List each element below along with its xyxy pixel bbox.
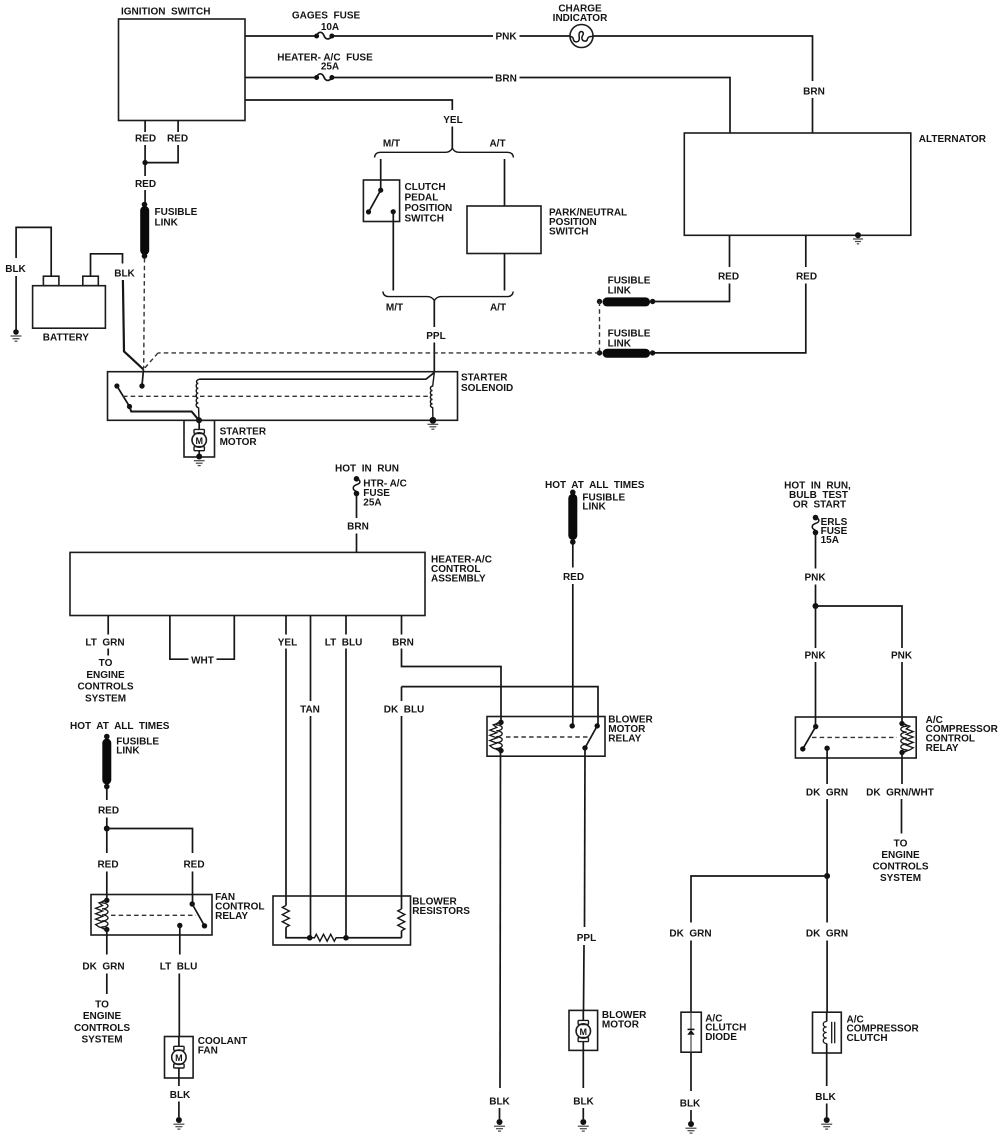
wire RED to upper fusible link: [653, 284, 730, 302]
svg-text:25A: 25A: [363, 498, 381, 509]
svg-text:RED: RED: [167, 134, 188, 145]
ground inside alternator: [853, 232, 863, 244]
svg-text:DK GRN/WHT: DK GRN/WHT: [866, 788, 934, 799]
wire BLK below compressor clutch: [826, 1053, 828, 1086]
svg-text:IGNITION SWITCH: IGNITION SWITCH: [121, 7, 210, 18]
wire BLK stub: [690, 1110, 692, 1121]
svg-text:SWITCH: SWITCH: [405, 214, 444, 225]
wire YEL pin: [285, 616, 287, 635]
blower resistors: [273, 896, 470, 945]
wire A/T down to park/neutral switch: [504, 159, 506, 206]
svg-text:RED: RED: [183, 860, 204, 871]
svg-text:A/T: A/T: [490, 303, 506, 314]
brace M/T A/T upper: [375, 139, 514, 158]
ground (battery negative): [11, 329, 22, 341]
wire RED from fusible link: [106, 789, 108, 801]
svg-text:TO: TO: [894, 839, 908, 850]
alternator: [684, 133, 986, 235]
wire LT BLU into bus: [345, 896, 347, 938]
blower motor: [569, 1010, 647, 1051]
fuse ERLS FUSE 15A: [812, 515, 847, 546]
ground (starter motor): [194, 454, 205, 466]
svg-text:CONTROLS: CONTROLS: [77, 682, 133, 693]
wire DK GRN from relay switch: [826, 748, 828, 784]
wire RED ignition left pin: [144, 121, 146, 133]
wire PNK branch right: [816, 606, 903, 648]
wire DK GRN from relay coil: [106, 930, 108, 955]
svg-text:OR START: OR START: [793, 500, 846, 511]
switch in starter solenoid: [114, 383, 199, 420]
wire PNK to charge indicator: [520, 35, 571, 37]
wire BLK battery positive to solenoid: [91, 254, 123, 276]
wire BLK stub: [826, 1104, 828, 1118]
wire RED branch right: [107, 829, 193, 854]
wire DK GRN to compressor clutch: [826, 941, 828, 1013]
wire PNK from ignition switch to gages fuse: [245, 35, 317, 37]
svg-text:BLK: BLK: [5, 264, 26, 275]
svg-text:RELAY: RELAY: [215, 911, 248, 922]
svg-text:CONTROLS: CONTROLS: [872, 862, 928, 873]
svg-text:RED: RED: [796, 272, 817, 283]
wire DK GRN to junction: [826, 799, 828, 876]
ground (a/c compressor clutch): [821, 1117, 832, 1129]
wire RED to blower motor relay: [572, 584, 574, 726]
wire BLK down to solenoid junction: [123, 280, 144, 370]
svg-text:BRN: BRN: [392, 638, 414, 649]
wire BLK stub: [499, 1108, 501, 1119]
wire from park/neutral switch to lower brace: [504, 254, 506, 291]
svg-text:FUSIBLE: FUSIBLE: [155, 207, 198, 218]
svg-text:TO: TO: [95, 1000, 109, 1011]
svg-text:LINK: LINK: [608, 339, 632, 350]
svg-text:RELAY: RELAY: [926, 743, 959, 754]
wire YEL to blower resistors: [285, 649, 287, 897]
dashed wire from fusible link to starter solenoid: [144, 353, 600, 370]
wire RED from fusible link: [572, 544, 574, 568]
battery: [33, 276, 106, 343]
svg-text:BLK: BLK: [815, 1092, 836, 1103]
svg-text:M: M: [580, 1027, 588, 1037]
dashed link in relay: [111, 914, 196, 916]
svg-text:PPL: PPL: [426, 331, 445, 342]
svg-text:M: M: [175, 1053, 183, 1063]
svg-text:STARTER: STARTER: [220, 427, 267, 438]
svg-text:BRN: BRN: [347, 522, 369, 533]
svg-text:MOTOR: MOTOR: [602, 1019, 640, 1030]
svg-text:LINK: LINK: [155, 218, 179, 229]
wire BLK below diode: [690, 1052, 692, 1091]
park/neutral position switch: [467, 206, 627, 254]
wire BLK below coolant fan: [178, 1078, 180, 1086]
node junction: [142, 160, 147, 165]
svg-text:SYSTEM: SYSTEM: [880, 873, 921, 884]
wire BRN to blower motor relay coil: [402, 649, 502, 723]
svg-text:ASSEMBLY: ASSEMBLY: [431, 574, 486, 585]
svg-text:BRN: BRN: [803, 87, 825, 98]
net label HOT IN RUN, BULB TEST OR START: [784, 481, 851, 511]
switch (a/c compressor control relay): [800, 724, 830, 752]
node battery terminal in solenoid: [139, 383, 144, 388]
ignition switch: [119, 7, 246, 121]
fusible link (fan feed): [104, 734, 159, 790]
coil (fan control relay): [96, 898, 110, 933]
svg-text:25A: 25A: [321, 62, 339, 73]
wire WHT loop: [170, 616, 234, 660]
ground (coolant fan): [173, 1117, 184, 1129]
wire LT GRN pin: [107, 616, 109, 635]
blower motor relay: [487, 715, 654, 757]
node junction RED: [104, 826, 110, 832]
svg-text:POSITION: POSITION: [405, 203, 453, 214]
wire RED left branch down: [106, 829, 108, 854]
svg-text:CONTROLS: CONTROLS: [74, 1023, 130, 1034]
wire RED to lower fusible link: [653, 284, 806, 353]
fusible link (blower feed): [570, 490, 626, 545]
wire BLK to ground: [15, 276, 17, 330]
svg-text:INDICATOR: INDICATOR: [553, 13, 608, 24]
svg-text:RED: RED: [135, 179, 156, 190]
svg-text:RED: RED: [135, 134, 156, 145]
svg-text:HOT IN RUN: HOT IN RUN: [335, 464, 399, 475]
svg-text:LINK: LINK: [608, 286, 632, 297]
node junction LT BLU: [343, 935, 349, 941]
svg-text:BLK: BLK: [170, 1090, 191, 1101]
wire DK GRN stub: [106, 974, 108, 995]
dashed wire from fusible link to solenoid junction: [143, 258, 146, 368]
svg-text:BRN: BRN: [495, 74, 517, 85]
wire PNK to relay coil: [901, 662, 903, 724]
wire PNK to relay switch: [815, 662, 817, 726]
dashed link in solenoid: [123, 395, 428, 397]
svg-text:FAN: FAN: [198, 1045, 218, 1056]
resistor (blower resistor 2, horizontal): [310, 934, 346, 941]
fusible link (upper right): [597, 276, 656, 305]
wire BLK below blower motor: [582, 1050, 584, 1088]
svg-text:YEL: YEL: [278, 638, 297, 649]
wire DK BLU down: [401, 687, 403, 701]
svg-text:DIODE: DIODE: [705, 1032, 737, 1043]
svg-text:TO: TO: [99, 658, 113, 669]
wire RED to relay coil: [106, 872, 108, 901]
wire from relay coil to ground (bottom): [499, 751, 502, 1088]
svg-text:ENGINE: ENGINE: [881, 850, 920, 861]
svg-text:SWITCH: SWITCH: [549, 227, 588, 238]
wire YEL to brace: [451, 127, 453, 149]
resistor (blower resistor 3): [398, 896, 405, 938]
svg-text:M/T: M/T: [383, 139, 400, 150]
svg-text:STARTER: STARTER: [461, 373, 508, 384]
wire LT GRN stub: [107, 649, 109, 656]
wire DK BLU to blower resistors: [401, 716, 403, 896]
brace M/T A/T lower: [383, 292, 513, 314]
wire BLK stub: [582, 1108, 584, 1119]
fusible link (lower right): [597, 329, 656, 356]
wire solenoid inner top: [200, 373, 435, 380]
svg-text:RED: RED: [98, 806, 119, 817]
wire PPL from brace: [433, 301, 435, 327]
dashed wire between fusible links: [599, 302, 601, 353]
coil (solenoid pull-in winding): [196, 379, 199, 420]
wire from clutch pedal switch to lower brace: [392, 212, 394, 291]
svg-text:HOT AT ALL TIMES: HOT AT ALL TIMES: [70, 721, 170, 732]
wire DK BLU: [402, 687, 599, 726]
wire PPL to starter solenoid: [433, 343, 435, 373]
node TO ENGINE CONTROLS SYSTEM (right): [872, 839, 928, 885]
a/c clutch diode: [681, 1012, 746, 1052]
svg-text:RED: RED: [563, 572, 584, 583]
node solenoid ground: [430, 417, 437, 424]
svg-text:ENGINE: ENGINE: [86, 670, 125, 681]
svg-text:RELAY: RELAY: [608, 734, 641, 745]
switch (fan control relay): [177, 901, 207, 928]
wire bus to right resistor: [346, 937, 402, 939]
svg-text:PNK: PNK: [891, 651, 913, 662]
wire BRN down to alternator: [812, 98, 814, 133]
wire junction into solenoid: [142, 370, 144, 386]
wire PNK from fuse: [815, 533, 817, 569]
svg-text:RESISTORS: RESISTORS: [412, 906, 470, 917]
coil (a/c compressor control relay): [899, 721, 913, 755]
node junction TAN: [307, 935, 313, 941]
wire DK GRN down: [826, 876, 828, 923]
wire LT BLU pin: [345, 616, 347, 635]
wire BLK battery negative: [16, 227, 51, 276]
svg-text:M: M: [195, 436, 203, 446]
coolant fan: [165, 1036, 248, 1078]
wire LT BLU from relay switch: [179, 926, 181, 955]
wire BRN to heater assembly: [356, 534, 358, 553]
wire PPL from relay switch: [584, 748, 587, 927]
svg-text:SYSTEM: SYSTEM: [85, 693, 126, 704]
switch (blower motor relay): [582, 723, 600, 750]
fuse GAGES FUSE 10A: [292, 11, 361, 39]
wire BRN from ignition switch to heater fuse: [245, 77, 317, 79]
svg-text:RED: RED: [97, 860, 118, 871]
svg-text:YEL: YEL: [443, 115, 462, 126]
wire DK GRN branch to diode: [691, 876, 827, 923]
wire PPL to blower motor: [583, 945, 586, 1010]
svg-text:TAN: TAN: [300, 705, 320, 716]
wire LT BLU to coolant fan: [178, 974, 180, 1037]
svg-text:LT BLU: LT BLU: [325, 638, 363, 649]
dashed link in relay: [812, 736, 897, 738]
wire BRN to alternator: [520, 78, 731, 134]
wire RED down: [144, 163, 146, 176]
svg-text:DK BLU: DK BLU: [384, 705, 425, 716]
wire DK GRN/WHT from relay coil: [901, 753, 903, 785]
wire RED ignition right pin: [177, 121, 179, 133]
svg-text:WHT: WHT: [191, 656, 214, 667]
node TO ENGINE CONTROLS SYSTEM: [77, 658, 133, 704]
wire LT BLU to blower resistors: [345, 649, 347, 897]
wire BLK stub: [178, 1102, 180, 1118]
svg-text:HOT AT ALL TIMES: HOT AT ALL TIMES: [545, 480, 645, 491]
svg-text:LT BLU: LT BLU: [160, 962, 198, 973]
fuse HTR-A/C FUSE 25A: [353, 476, 407, 509]
wire DK GRN/WHT stub: [901, 799, 903, 834]
wire RED to fusible link: [144, 190, 146, 204]
node RED terminal in relay: [570, 723, 575, 728]
wire PNK from charge indicator to alternator: [593, 36, 813, 81]
wire RED to junction: [106, 818, 108, 829]
svg-text:DK GRN: DK GRN: [806, 788, 848, 799]
node junction PNK: [813, 603, 819, 609]
svg-text:BLK: BLK: [489, 1097, 510, 1108]
svg-text:SYSTEM: SYSTEM: [81, 1035, 122, 1046]
wire PNK to junction: [815, 585, 817, 607]
wire BRN: [332, 77, 493, 79]
svg-text:15A: 15A: [821, 535, 839, 546]
wire RED to relay switch: [192, 872, 194, 905]
wire BRN pin: [401, 616, 403, 635]
wire PNK left branch down: [815, 606, 817, 648]
ground (blower relay coil): [494, 1119, 505, 1131]
svg-text:GAGES FUSE: GAGES FUSE: [292, 11, 361, 22]
ground (solenoid): [428, 424, 439, 429]
svg-text:A/T: A/T: [489, 139, 505, 150]
wire RED from alternator (left): [729, 235, 731, 267]
fuse HEATER-A/C FUSE 25A: [277, 53, 373, 81]
svg-text:PPL: PPL: [577, 933, 596, 944]
svg-text:PNK: PNK: [804, 651, 826, 662]
ground (a/c clutch diode): [686, 1121, 697, 1133]
svg-text:PNK: PNK: [495, 32, 517, 43]
svg-text:MOTOR: MOTOR: [220, 437, 258, 448]
svg-text:BATTERY: BATTERY: [43, 333, 89, 344]
wire TAN into bus: [310, 896, 312, 938]
fan control relay: [91, 892, 265, 935]
svg-text:CLUTCH: CLUTCH: [847, 1033, 888, 1044]
node junction DK GRN: [824, 873, 830, 879]
svg-text:BLK: BLK: [114, 269, 135, 280]
svg-text:DK GRN: DK GRN: [82, 962, 124, 973]
starter motor: [184, 420, 267, 457]
a/c compressor control relay: [795, 715, 998, 758]
dashed link in relay: [506, 736, 589, 738]
svg-text:DK GRN: DK GRN: [669, 929, 711, 940]
svg-text:BLK: BLK: [573, 1097, 594, 1108]
wire PNK: [332, 35, 493, 37]
svg-text:LINK: LINK: [116, 746, 140, 757]
coil (blower motor relay): [490, 720, 504, 754]
wire RED join: [145, 145, 178, 163]
svg-text:10A: 10A: [321, 22, 339, 33]
wire YEL from ignition switch: [245, 100, 452, 110]
clutch pedal position switch: [363, 180, 452, 225]
wire TAN pin: [310, 616, 312, 702]
wire BRN from fuse: [356, 494, 358, 518]
a/c compressor clutch: [813, 1012, 920, 1053]
fusible link (battery feed): [142, 202, 198, 259]
charge indicator lamp: [553, 4, 608, 48]
resistor (blower resistor 1): [282, 896, 309, 938]
wire M/T down to clutch pedal switch: [380, 159, 382, 180]
coil (solenoid hold-in winding): [430, 373, 434, 421]
svg-text:PNK: PNK: [804, 573, 826, 584]
svg-text:M/T: M/T: [386, 303, 403, 314]
svg-text:LT GRN: LT GRN: [85, 638, 124, 649]
node TO ENGINE CONTROLS SYSTEM (left bottom): [74, 1000, 130, 1046]
node starter motor junction: [196, 417, 202, 423]
svg-text:RED: RED: [718, 272, 739, 283]
svg-text:ALTERNATOR: ALTERNATOR: [919, 134, 987, 145]
wire TAN to blower resistors: [310, 716, 312, 896]
ground (blower motor): [578, 1119, 589, 1131]
svg-text:CLUTCH: CLUTCH: [405, 182, 446, 193]
svg-text:SOLENOID: SOLENOID: [461, 383, 513, 394]
svg-text:BLK: BLK: [680, 1099, 701, 1110]
starter solenoid: [108, 372, 514, 421]
svg-text:DK GRN: DK GRN: [806, 929, 848, 940]
heater-a/c control assembly: [70, 552, 492, 615]
wire RED from alternator (right): [805, 235, 807, 267]
svg-text:PEDAL: PEDAL: [405, 193, 439, 204]
svg-text:LINK: LINK: [582, 502, 606, 513]
wire DK GRN to diode: [690, 941, 692, 1013]
svg-text:ENGINE: ENGINE: [83, 1011, 122, 1022]
